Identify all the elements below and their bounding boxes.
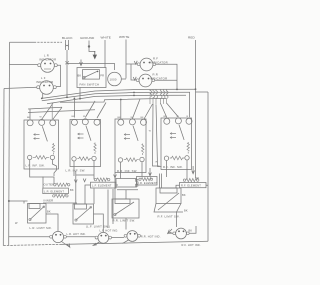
svg-text:FAN SWITCH: FAN SWITCH	[80, 82, 100, 86]
element LF coil	[94, 178, 96, 180]
arrow sw3 riser	[149, 168, 152, 176]
wire mid bus F short	[28, 110, 95, 113]
svg-text:BLACK: BLACK	[62, 36, 73, 40]
wire LF indicator left to outer bus	[4, 87, 37, 88]
limit switch RR box	[112, 199, 139, 222]
limit switch LF box	[73, 204, 94, 224]
wire LF element sides	[85, 185, 118, 204]
indicator RF lamp	[140, 58, 153, 71]
infinite switch 3 RR box	[115, 119, 147, 173]
wire gap verticals between sw3 and sw4	[153, 104, 162, 167]
wire mid bus E short	[28, 107, 62, 109]
svg-text:WHITE: WHITE	[101, 36, 111, 40]
svg-text:1000: 1000	[110, 77, 117, 81]
wire left bus to LR indicator	[10, 64, 38, 66]
hot indicator RF lamp	[176, 228, 187, 239]
wire LF hot diag to bottom	[93, 242, 99, 245]
wire mid bus D	[60, 98, 166, 102]
svg-text:L.F. INF. SW.: L.F. INF. SW.	[26, 164, 45, 168]
ground arrow symbol	[93, 51, 96, 59]
connector hooks on black wire	[66, 61, 69, 65]
svg-text:R.R. ELEMENT: R.R. ELEMENT	[137, 181, 158, 185]
svg-text:L.R. HOT IND.: L.R. HOT IND.	[67, 232, 86, 236]
wire under LF element	[76, 175, 94, 204]
svg-text:BK: BK	[189, 229, 193, 233]
svg-text:OUTER: OUTER	[44, 183, 55, 187]
wire LF to LR hot link	[66, 236, 95, 238]
wire RF limit to hot ind	[176, 212, 178, 227]
element LR inner coil	[53, 195, 55, 197]
element RR label box	[137, 177, 158, 186]
wire LR element side risers	[43, 171, 76, 203]
svg-text:R.F. ELEMENT: R.F. ELEMENT	[181, 184, 201, 188]
element RF label box	[180, 183, 207, 188]
wire LF limit to hot ind	[94, 214, 104, 232]
svg-text:R.R. HOT IND.: R.R. HOT IND.	[141, 234, 161, 238]
svg-text:BK: BK	[70, 188, 74, 192]
wire bottom bus	[3, 244, 60, 245]
arrow on LR element riser	[74, 180, 77, 183]
wire WHITE 2 drop	[125, 40, 127, 79]
wire sw4 drops	[167, 160, 188, 179]
wire red drop to RF element	[196, 178, 200, 179]
svg-text:L.R. ELEMENT: L.R. ELEMENT	[44, 189, 64, 193]
svg-text:R.R. LIMIT SW.: R.R. LIMIT SW.	[113, 218, 136, 222]
wire sw1 bottom right drop	[52, 160, 56, 176]
wire under LR element	[43, 202, 77, 204]
wire sw1 bottom left drop	[30, 160, 54, 184]
wire left inner vertical bus	[8, 42, 11, 245]
element LR label box	[43, 188, 69, 194]
svg-text:R.R. INF. SW.: R.R. INF. SW.	[117, 169, 138, 173]
wire LR hot diag to bottom	[62, 242, 70, 248]
limit switch LR box	[28, 204, 52, 230]
wire white2 to RF indicator	[126, 63, 137, 65]
wire RR limit to hot ind	[125, 218, 127, 230]
arrow into fan switch	[80, 60, 83, 66]
wire RED drop	[195, 40, 197, 92]
wire RF element sides	[176, 185, 208, 188]
wire left outer vertical bus	[2, 89, 5, 246]
svg-text:L.F. ELEMENT: L.F. ELEMENT	[92, 184, 112, 188]
wire sw3 drops	[121, 162, 143, 178]
svg-text:PR: PR	[100, 73, 104, 77]
ground terminal dot	[88, 45, 90, 47]
wire mid bus C	[47, 95, 186, 104]
svg-text:RED: RED	[188, 36, 195, 40]
wire sw2 drops to elements	[74, 161, 94, 180]
junction dots	[66, 96, 68, 98]
wire top bus	[10, 41, 35, 43]
wire mid bus A	[42, 89, 196, 98]
wire LF indicator bottom drop	[42, 93, 44, 98]
wire drops to switch 4	[161, 103, 167, 117]
svg-text:BK: BK	[182, 193, 186, 197]
svg-text:R.F. HOT IND.: R.F. HOT IND.	[182, 243, 201, 247]
wire right of LF element riser	[108, 173, 115, 229]
wire drops to switch 1	[29, 109, 31, 119]
svg-text:W: W	[15, 221, 18, 225]
wire right vertical bus	[207, 92, 209, 241]
wire left bus to LR limit	[9, 201, 28, 204]
wire fan box bottom drop	[79, 88, 81, 99]
wire LR hot left lead	[9, 236, 50, 238]
wire ground lead	[89, 41, 95, 53]
wire RR junction block to limit	[117, 190, 138, 199]
wire LR limit to hot ind	[46, 214, 58, 231]
wire RF RR right terminals to right drop	[156, 64, 177, 89]
element LF label box	[91, 182, 117, 188]
crossover hops bundle 1	[150, 89, 152, 104]
wire LF to RR hot link	[112, 237, 125, 239]
wire RF hot leads	[189, 226, 196, 233]
svg-text:GROUND: GROUND	[80, 36, 95, 40]
svg-text:L.R. LIMIT SW.: L.R. LIMIT SW.	[30, 226, 52, 230]
arrow on riser	[83, 175, 116, 182]
infinite switch 1 LF box	[24, 119, 59, 169]
wire drops to switch 3	[120, 100, 122, 120]
fan switch assembly box	[77, 68, 106, 88]
svg-text:INNER: INNER	[44, 198, 54, 202]
fan switch contact box	[83, 70, 100, 80]
arrow sw4 riser	[192, 166, 195, 174]
svg-text:R.F. INF. SW.: R.F. INF. SW.	[163, 165, 183, 169]
svg-text:(L.F. LIMIT SW.): (L.F. LIMIT SW.)	[86, 225, 110, 229]
wire mid bus B	[42, 92, 190, 100]
fan motor circle	[108, 72, 122, 86]
svg-text:BK: BK	[184, 209, 188, 213]
wire BLACK drop with connector	[66, 40, 69, 50]
wire LR indicator right loop to LF indicator	[56, 65, 60, 86]
wire RR hot diag to bottom	[123, 240, 129, 243]
hot indicator LF lamp	[98, 232, 109, 243]
element RR coil	[139, 178, 141, 180]
infinite switch 4 RF box	[161, 118, 192, 170]
svg-text:L.F. HOT IND.: L.F. HOT IND.	[100, 228, 119, 232]
wire WHITE drop	[104, 40, 106, 68]
infinite switch 2 LR box	[66, 119, 101, 173]
svg-text:WHITE: WHITE	[119, 35, 129, 39]
wire red to right bus corner	[196, 91, 209, 93]
junction block left of RR element	[116, 179, 137, 188]
wire motor to white2	[121, 78, 126, 80]
svg-text:BK: BK	[78, 73, 82, 77]
element RF coil	[183, 179, 185, 181]
wire black branch over fan box	[67, 64, 115, 71]
wire drops to switch 2	[73, 98, 75, 117]
hot indicator LR lamp	[52, 231, 63, 242]
fan switch blade	[84, 71, 98, 77]
svg-text:BK: BK	[47, 210, 51, 214]
wire red continues down	[195, 92, 197, 178]
indicator RR lamp	[139, 74, 152, 87]
wire RR element right feeds	[160, 174, 162, 189]
limit switch RF box	[154, 188, 188, 218]
hot indicator RR lamp	[127, 231, 138, 242]
crossover hops bundle 2	[161, 89, 163, 104]
svg-text:INDICATOR: INDICATOR	[39, 58, 56, 62]
